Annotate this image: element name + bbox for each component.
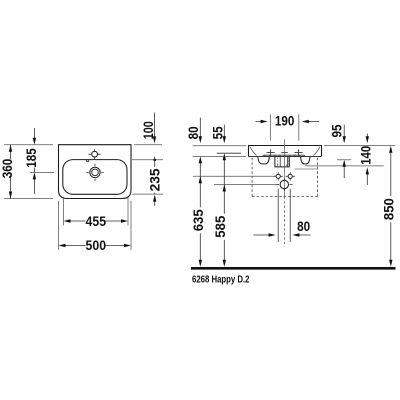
center drain boss [275, 157, 289, 167]
svg-text:140: 140 [359, 146, 374, 165]
svg-text:80: 80 [186, 126, 201, 139]
mounting hole ticks [274, 172, 295, 180]
svg-text:80: 80 [297, 219, 310, 234]
faucet hole ticks [89, 149, 101, 159]
hatch band under rim [263, 154, 305, 156]
svg-text:850: 850 [382, 198, 397, 220]
dashed siphon cover rectangle [252, 158, 317, 197]
dim 635 line [199, 162, 201, 260]
left corner curve [250, 147, 256, 156]
dim 585 line [223, 159, 225, 260]
right underside scallop [301, 157, 310, 164]
svg-text:95: 95 [329, 124, 344, 137]
tap hole cross center [281, 152, 288, 154]
ext line mounting holes [193, 175, 276, 177]
drain inner circle [92, 169, 99, 176]
ext line rim bottom left [193, 156, 246, 158]
hatch band ticks [263, 155, 304, 157]
centerline [284, 139, 286, 196]
ext line bottom edge left [4, 198, 53, 200]
ext line rim top right [324, 145, 395, 147]
basin inner bowl [63, 160, 127, 195]
mounting hole left [276, 174, 280, 178]
ext lines 500 [59, 201, 132, 250]
overflow hole [86, 160, 89, 162]
svg-text:6268 Happy D.2: 6268 Happy D.2 [192, 275, 250, 286]
dim 500 line [65, 245, 125, 247]
drain ticks [86, 164, 103, 181]
dim 95 line [343, 125, 345, 179]
dim 190 ext lines [271, 114, 299, 140]
svg-text:585: 585 [213, 215, 228, 237]
svg-text:100: 100 [141, 121, 156, 139]
floor line [191, 267, 396, 270]
dim 190 line [256, 121, 320, 123]
dim 80 left line [199, 118, 201, 138]
left underside scallop [258, 157, 269, 164]
svg-text:500: 500 [86, 238, 107, 253]
ext line rim top left [193, 145, 247, 147]
dim 360 line [10, 145, 12, 199]
drain outer circle [90, 167, 100, 177]
svg-text:190: 190 [275, 114, 295, 129]
svg-text:635: 635 [191, 209, 206, 231]
dim 455 line [70, 220, 122, 222]
drain hole front view [280, 180, 288, 188]
dim 100 line [154, 113, 156, 140]
dim 850 line [390, 152, 392, 261]
mounting hole right [288, 174, 292, 178]
ext lines right of basin [132, 145, 163, 194]
dim 140 line [366, 134, 368, 186]
right corner curve [313, 147, 319, 156]
ext line top edge left [4, 144, 53, 146]
svg-text:235: 235 [148, 168, 163, 191]
basin rim outline [249, 146, 322, 157]
dim 55 line [223, 125, 225, 138]
svg-text:185: 185 [24, 148, 39, 168]
ext line front edge [217, 152, 241, 154]
ext lines 455 [64, 197, 129, 226]
dim 235 line [154, 164, 156, 205]
ext line lower rear edge [295, 168, 319, 170]
faucet hole [92, 151, 98, 157]
mounting hole hidden stubs [278, 165, 287, 167]
drain hole ticks [276, 178, 293, 190]
svg-text:455: 455 [86, 214, 107, 229]
drain boss hidden dashes [278, 158, 289, 167]
ext line drain center [214, 184, 279, 186]
ext line underside bottom [305, 165, 384, 167]
tap hole cross left [267, 149, 275, 155]
svg-text:55: 55 [210, 126, 225, 139]
svg-text:360: 360 [0, 159, 15, 179]
waste pipe lines / 80 ext lines [278, 189, 290, 242]
dim 80 bottom line [254, 234, 311, 236]
dim 185 line [33, 128, 35, 194]
basin rim bottom line [249, 156, 322, 158]
ext line drain center left [30, 171, 54, 173]
dim junction dot [153, 159, 156, 162]
drain boss inner walls [280, 157, 287, 167]
tap hole cross right [295, 149, 303, 155]
basin outer outline [59, 145, 132, 199]
ext line tap level right [337, 159, 351, 161]
